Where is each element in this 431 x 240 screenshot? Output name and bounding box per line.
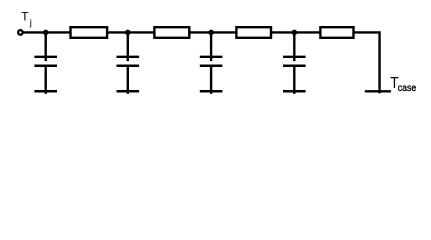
svg-text:case: case [398,83,417,94]
svg-text:j: j [29,18,32,29]
svg-text:T: T [21,10,29,24]
